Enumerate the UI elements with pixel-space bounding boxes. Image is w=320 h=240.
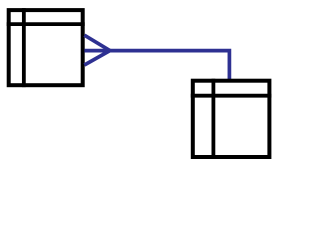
- entity table 2 (right) outer frame: [193, 81, 270, 157]
- wire relationship connector: [84, 51, 229, 81]
- crow's foot (many end) at table 1: [84, 35, 110, 65]
- entity table 1 key column line: [22, 8, 26, 87]
- entity table 1 header row line: [7, 22, 85, 26]
- entity table 2 header row line: [191, 94, 272, 98]
- entity table 1 (left) outer frame: [9, 10, 83, 85]
- entity table 2 key column line: [211, 79, 215, 159]
